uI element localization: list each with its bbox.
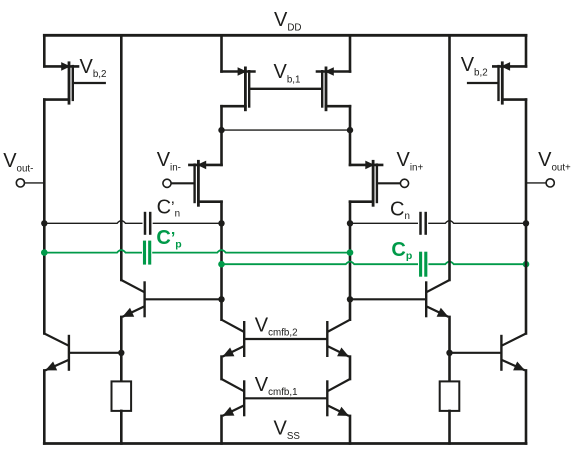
node Q1 base junction — [218, 296, 224, 302]
wire C'p line — [44, 250, 350, 253]
transistor M5 (PMOS Vin- input) — [189, 164, 221, 167]
wire VDD to M2 drain — [525, 35, 528, 66]
wire Vout- stub — [25, 182, 45, 184]
capacitor Cn — [419, 212, 422, 235]
node Cp right junction — [523, 261, 530, 268]
wire Q1 emitter to node — [120, 317, 123, 382]
transistor M2 (PMOS Vb2 right) — [493, 65, 526, 68]
wire M4 drain to tail — [349, 106, 352, 165]
node Vin- terminal — [163, 179, 171, 187]
transistor Q5 (BJT Vcmfb2 left) — [222, 320, 245, 332]
wire R2 to VSS — [448, 411, 451, 444]
wire VDD to Q2 collector — [448, 35, 451, 280]
transistor Q3 (BJT outer left) — [44, 334, 69, 346]
transistor M6 (PMOS Vin+ input) — [350, 164, 382, 167]
wire Cp line — [222, 262, 527, 265]
wire M2 source down to Q4 — [525, 100, 528, 334]
wire Q2 emitter to node — [448, 317, 451, 382]
node C'p right junction — [347, 249, 354, 256]
node Q2/Q4/R2 junction — [446, 350, 452, 356]
transistor Q6 (BJT Vcmfb2 right) — [327, 320, 350, 332]
wire Vout+ stub — [526, 182, 546, 184]
wire Q4 emitter to VSS — [525, 370, 528, 443]
node Vout+ terminal — [546, 179, 554, 187]
wire VDD to M3 — [220, 35, 223, 71]
wire M5 source down — [220, 202, 223, 320]
node Cn left junction — [347, 220, 353, 226]
transistor Q1 (BJT upper left) — [121, 280, 144, 292]
wire VSS rail — [44, 442, 526, 445]
node Vin+ terminal — [400, 179, 408, 187]
transistor Q7 (BJT Vcmfb1 left) — [222, 379, 245, 391]
wire Q6-Q8 emitter-collector — [349, 357, 352, 379]
wire Q8 emitter to VSS — [349, 416, 352, 444]
capacitor C'p — [143, 241, 146, 265]
wire Q7 emitter to VSS — [220, 416, 223, 444]
node Cn right junction — [523, 220, 529, 226]
transistor Q8 (BJT Vcmfb1 right) — [327, 379, 350, 391]
wire tail line — [222, 129, 351, 131]
node C'n right junction — [218, 220, 224, 226]
node Cp left junction — [218, 261, 225, 268]
wire VDD to M4 — [349, 35, 352, 71]
transistor M4 (PMOS Vb1 right) — [317, 70, 350, 73]
node C'n left junction — [41, 220, 47, 226]
node Q1/Q3/R1 junction — [118, 350, 124, 356]
wire VDD to Q1 collector — [120, 35, 123, 280]
wire Q3 emitter to VSS — [43, 370, 46, 443]
wire VDD to M1 drain — [43, 35, 46, 66]
resistor R2 — [440, 381, 460, 411]
capacitor C'n — [144, 212, 147, 235]
node tail right — [347, 127, 353, 133]
wire Q5-Q7 emitter-collector — [220, 357, 223, 379]
capacitor Cp — [419, 252, 422, 277]
wire M6 source down — [349, 202, 352, 320]
node Q2 base junction — [347, 296, 353, 302]
transistor M3 (PMOS Vb1 left) — [222, 70, 255, 73]
wire M3 drain to tail — [220, 106, 223, 165]
node C'p left junction — [41, 249, 48, 256]
wire R1 to VSS — [120, 411, 123, 444]
wire VDD rail — [44, 34, 526, 37]
transistor M1 (PMOS Vb2 left) — [44, 65, 78, 68]
transistor Q4 (BJT outer right) — [501, 334, 526, 346]
node tail left — [218, 127, 224, 133]
transistor Q2 (BJT upper right) — [426, 280, 449, 292]
resistor R1 — [112, 381, 132, 411]
wire M1 source down to Q3 — [43, 100, 46, 334]
wire C'n line — [44, 221, 221, 224]
node Vout- terminal — [16, 179, 24, 187]
wire Cn line — [350, 221, 526, 224]
